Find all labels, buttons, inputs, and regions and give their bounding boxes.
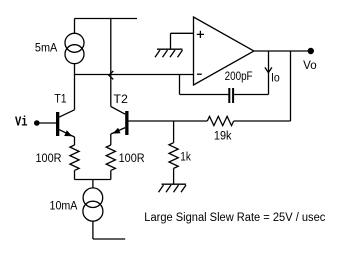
ground (below 1k) bbox=[159, 184, 187, 192]
svg-text:Large Signal Slew Rate = 25V /: Large Signal Slew Rate = 25V / usec bbox=[144, 212, 325, 224]
wire Io branch vertical from output to feedback bbox=[268, 51, 270, 95]
wire feedback horizontal right of capacitor bbox=[234, 94, 268, 96]
wire T1 emitter to resistor bbox=[74, 137, 76, 145]
wire 5mA source top lead bbox=[74, 19, 76, 34]
svg-text:Vo: Vo bbox=[303, 60, 317, 72]
wire feedback drop from inverting rail bbox=[179, 75, 181, 95]
ground (op-amp non-inverting input) bbox=[155, 49, 183, 57]
wire non-inverting input bbox=[171, 32, 194, 34]
node Vi terminal dot bbox=[34, 120, 40, 126]
wire vertical branch from supply rail to T2 collector node bbox=[110, 19, 112, 107]
svg-text:19k: 19k bbox=[214, 131, 232, 143]
wire 1k bottom lead bbox=[173, 168, 175, 184]
wire 5mA source bottom lead to node wire bbox=[74, 64, 76, 75]
T1 base bar bbox=[56, 112, 59, 136]
op-amp U1 triangle bbox=[194, 17, 255, 85]
wire 1k top lead bbox=[173, 121, 175, 143]
T2 base bar bbox=[125, 111, 128, 135]
wire op-amp output bbox=[254, 50, 311, 52]
resistor R4 1k (vertical zigzag) bbox=[169, 143, 178, 169]
resistor R2 100R (right, zigzag) bbox=[106, 145, 115, 170]
wire feedback horizontal left of capacitor bbox=[180, 94, 229, 96]
current source I1 5mA (two overlapping circles) bbox=[65, 33, 84, 52]
node Vo terminal dot bbox=[308, 48, 314, 54]
resistor R1 100R (left, zigzag) bbox=[70, 145, 79, 170]
svg-text:100R: 100R bbox=[119, 153, 145, 165]
current source I2 10mA (two overlapping circles) bbox=[83, 188, 103, 208]
wire horizontal node rail to op-amp inverting input bbox=[75, 74, 194, 76]
wire common rail to 10mA source bbox=[92, 180, 94, 189]
svg-text:100R: 100R bbox=[36, 153, 62, 165]
transistor T2 bbox=[111, 107, 129, 136]
capacitor C1 200pF bbox=[228, 88, 234, 103]
junction current arrow at node (110.8,74.5) bbox=[109, 71, 114, 79]
wire T1 collector vertical bbox=[74, 75, 76, 110]
T2 emitter arrow bbox=[113, 128, 121, 134]
svg-text:200pF: 200pF bbox=[225, 71, 253, 83]
svg-text:Io: Io bbox=[271, 72, 280, 84]
wire Vi to T1 base bbox=[37, 122, 56, 124]
arrow Io (open arrowhead pointing down) bbox=[265, 67, 272, 72]
op-amp plus sign bbox=[197, 31, 204, 38]
wire R2 bottom lead bbox=[110, 171, 112, 180]
T1 collector diagonal bbox=[59, 110, 75, 117]
wire 10mA bottom lead down bbox=[92, 221, 94, 239]
wire emitter common rail bbox=[75, 179, 111, 181]
svg-text:1k: 1k bbox=[180, 152, 191, 164]
op-amp minus sign bbox=[197, 73, 202, 75]
T1 emitter arrow bbox=[64, 130, 72, 136]
svg-text:5mA: 5mA bbox=[35, 43, 58, 55]
transistor T1 bbox=[56, 110, 75, 137]
T2 collector diagonal bbox=[111, 107, 125, 115]
wire bottom tail to negative supply bbox=[93, 238, 125, 240]
svg-text:10mA: 10mA bbox=[50, 201, 78, 213]
wire R1 bottom lead bbox=[74, 171, 76, 180]
wire T2 base to 19k bbox=[129, 120, 208, 122]
svg-text:T2: T2 bbox=[113, 94, 128, 106]
wire T2 emitter to resistor bbox=[110, 134, 112, 145]
svg-text:T1: T1 bbox=[54, 94, 66, 106]
wire output down to 19k bbox=[290, 51, 292, 121]
wire top supply rail bbox=[75, 18, 138, 20]
wire non-inverting input down to ground bbox=[170, 33, 172, 49]
svg-text:Vi: Vi bbox=[15, 115, 28, 131]
wire 19k to output corner bbox=[234, 120, 291, 122]
T2 emitter diagonal bbox=[111, 128, 125, 134]
resistor R3 19k (horizontal zigzag) bbox=[207, 116, 233, 125]
T1 emitter diagonal bbox=[59, 130, 75, 137]
